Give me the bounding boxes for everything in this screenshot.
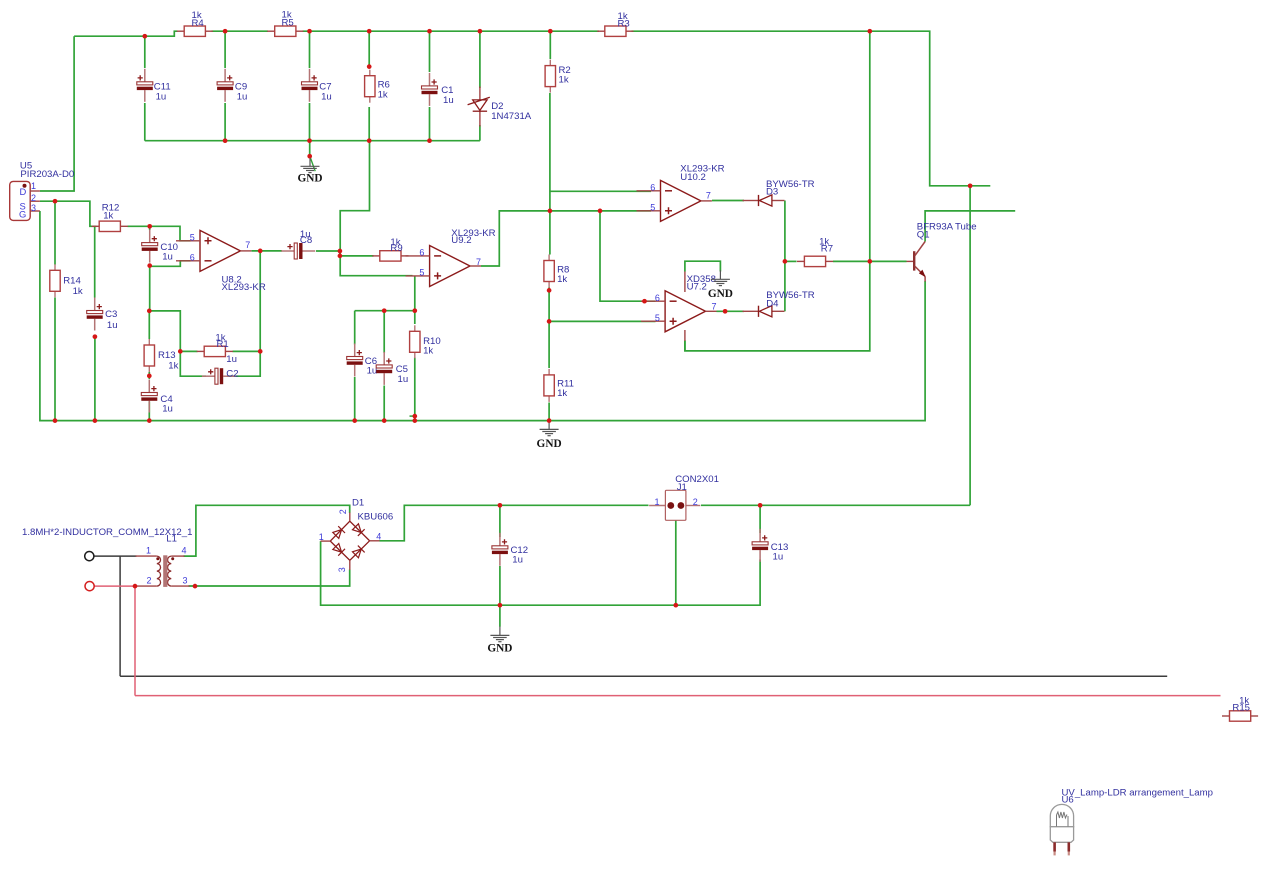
op-amp U9.2 xyxy=(430,246,470,287)
wire mains line red horiz xyxy=(94,585,136,587)
junction minus rail J1 xyxy=(673,603,678,608)
wire R12 to C10 junction xyxy=(128,226,191,241)
resistor R12 xyxy=(92,225,99,227)
svg-text:R9: R9 xyxy=(390,243,402,254)
wire C6 lower xyxy=(354,377,356,421)
svg-text:U10.2: U10.2 xyxy=(680,172,706,183)
svg-text:2: 2 xyxy=(693,497,698,507)
svg-text:C2: C2 xyxy=(226,368,238,379)
wire cap bank bottom rail xyxy=(145,140,480,142)
junction R13 C4 node xyxy=(147,374,152,379)
svg-text:5: 5 xyxy=(190,233,195,243)
wire C11 lower xyxy=(144,103,146,141)
svg-text:1u: 1u xyxy=(398,374,409,385)
svg-text:GND: GND xyxy=(537,438,562,450)
wire R1 left net xyxy=(149,311,206,376)
wire C6 C5 horizontal xyxy=(355,310,415,312)
wire U8 pin6 net xyxy=(150,261,191,267)
junction rail R14 xyxy=(53,418,58,423)
svg-text:D: D xyxy=(20,186,27,197)
bridge rectifier D1 KBU606 xyxy=(330,521,369,560)
capacitor C11 xyxy=(144,69,146,82)
junction rail R11 xyxy=(547,418,552,423)
svg-text:1k: 1k xyxy=(103,211,113,222)
transformer L1 xyxy=(136,555,157,557)
wire R11 lower xyxy=(548,403,550,421)
junction D3D4 R7 xyxy=(783,259,788,264)
junction rail C4 xyxy=(147,418,152,423)
capacitor C3 xyxy=(94,298,96,311)
svg-text:1k: 1k xyxy=(557,274,567,285)
wire R6 output net down-left xyxy=(340,141,412,276)
svg-text:1u: 1u xyxy=(226,354,237,365)
junction R9 node xyxy=(338,254,343,259)
wire R7 left link xyxy=(785,260,797,262)
wire D3 to D4 vertical xyxy=(784,201,786,312)
wire left drop to U5 pin1 xyxy=(40,36,74,191)
capacitor C13 xyxy=(759,529,761,542)
wire C12 branch xyxy=(499,505,501,537)
junction gnd top pin xyxy=(307,154,312,159)
wire C10-R13 vertical xyxy=(149,266,151,311)
wire top rail R5-R3 xyxy=(303,30,600,32)
resistor R7 xyxy=(797,260,805,262)
lamp U6 UV lamp xyxy=(1050,804,1073,826)
junction top rail C11 xyxy=(142,34,147,39)
diode D2 zener xyxy=(479,87,481,100)
wire C9 lower xyxy=(224,103,226,141)
wire C7 branch xyxy=(309,31,311,68)
junction top rail D2 xyxy=(478,29,483,34)
wire R2 to junction xyxy=(549,93,551,255)
junction U10 pin5 b xyxy=(598,209,603,214)
svg-text:XL293-KR: XL293-KR xyxy=(222,282,266,293)
resistor R10 xyxy=(414,325,416,331)
junction U7 out dot xyxy=(723,309,728,314)
wire R13-C4 junction link xyxy=(148,372,150,379)
wire L1 pin4 to bridge pin2 xyxy=(184,505,350,556)
svg-text:U7.2: U7.2 xyxy=(687,281,707,292)
terminal input bottom (red) xyxy=(85,582,94,591)
svg-text:1u: 1u xyxy=(321,92,332,103)
svg-text:1u: 1u xyxy=(512,554,523,565)
svg-text:1u: 1u xyxy=(162,404,173,415)
wire C8 junction vertical xyxy=(339,251,341,256)
junction R6 pin top xyxy=(367,64,372,69)
op-amp U7.2 xyxy=(665,291,705,332)
svg-text:PIR203A-D0: PIR203A-D0 xyxy=(20,169,74,180)
junction bank rail C7 xyxy=(307,138,312,143)
svg-text:R13: R13 xyxy=(158,350,176,361)
diode D4 xyxy=(743,310,759,312)
svg-text:5: 5 xyxy=(655,313,660,323)
svg-text:1N4731A: 1N4731A xyxy=(491,111,532,122)
wire mains line black horiz xyxy=(94,555,137,557)
junction R8 R11 mid xyxy=(547,319,552,324)
wire C8 right to junction xyxy=(316,250,340,252)
capacitor C12 xyxy=(499,533,501,546)
svg-text:1u: 1u xyxy=(107,320,118,331)
wire C3 lower xyxy=(94,337,96,421)
wire stub left of R10 bottom xyxy=(410,415,415,417)
capacitor C2 xyxy=(202,375,215,377)
wire C4 lower xyxy=(148,402,150,421)
svg-text:1k: 1k xyxy=(73,286,83,297)
svg-text:D4: D4 xyxy=(766,299,779,310)
wire V+ vertical x870 xyxy=(685,31,870,351)
junction U8 out xyxy=(258,249,263,254)
junction R10 pin dot xyxy=(412,414,417,419)
diode D3 xyxy=(743,200,759,202)
wire bridge pin1 down xyxy=(321,541,760,605)
wire R9 line xyxy=(340,255,374,257)
wire mains line red long xyxy=(135,695,1221,697)
junction R8 bottom xyxy=(547,288,552,293)
svg-text:2: 2 xyxy=(31,193,36,203)
wire U7 out to D4 xyxy=(717,310,745,312)
junction C8 node xyxy=(338,249,343,254)
wire pin5 stub down xyxy=(414,276,416,311)
wire R6 branch xyxy=(368,31,370,66)
svg-text:7: 7 xyxy=(245,240,250,250)
capacitor C10 xyxy=(149,230,151,243)
wire mains line black long xyxy=(120,675,1167,677)
wire D2 branch xyxy=(479,31,481,88)
wire mid junction to U7 pin5 xyxy=(549,320,655,322)
svg-text:1k: 1k xyxy=(378,89,388,100)
wire top rail R4-R5 xyxy=(212,30,269,32)
resistor R5 xyxy=(267,30,275,32)
junction R1 right xyxy=(258,349,263,354)
capacitor C4 xyxy=(148,380,150,393)
wire R6 lower xyxy=(368,107,370,141)
svg-text:Q1: Q1 xyxy=(917,229,930,240)
wire U9 out to U10 pin5 xyxy=(481,211,651,266)
op-amp U8.2 xyxy=(200,230,240,271)
wire R14 lower xyxy=(54,298,56,421)
wire R13 branch upper xyxy=(148,311,150,339)
svg-text:R15: R15 xyxy=(1232,703,1250,714)
svg-text:3: 3 xyxy=(31,203,36,213)
wire C10 lower stub xyxy=(149,264,151,266)
svg-text:D1: D1 xyxy=(352,497,364,508)
resistor R14 xyxy=(54,264,56,270)
junction C5 top xyxy=(382,308,387,313)
svg-text:1: 1 xyxy=(31,181,36,191)
svg-text:R4: R4 xyxy=(192,18,205,29)
svg-text:U6: U6 xyxy=(1062,795,1074,806)
wire U10 out to D3 xyxy=(712,200,744,202)
wire right long vertical to J1 net xyxy=(969,186,971,506)
capacitor C6 xyxy=(354,344,356,357)
svg-text:G: G xyxy=(19,208,26,219)
resistor R9 xyxy=(372,255,380,257)
svg-text:1k: 1k xyxy=(559,75,569,86)
svg-text:GND: GND xyxy=(487,643,512,655)
wire C9 branch xyxy=(224,31,226,68)
capacitor C5 xyxy=(383,352,385,365)
wire mains line red down xyxy=(134,586,136,696)
wire C1 branch xyxy=(429,31,431,72)
junction C10 top xyxy=(147,224,152,229)
svg-text:R3: R3 xyxy=(618,18,630,29)
transistor Q1 BFR93A xyxy=(907,260,914,262)
junction rail C3 xyxy=(93,418,98,423)
wire U8 out to C8 xyxy=(252,250,283,252)
svg-text:U9.2: U9.2 xyxy=(451,235,471,246)
junction plus rail C13 xyxy=(758,503,763,508)
svg-text:R1: R1 xyxy=(217,339,229,350)
wire R2 chain upper xyxy=(549,31,551,59)
op-amp U10.2 xyxy=(661,180,701,221)
wire U7 v- pin stub xyxy=(684,330,686,341)
wire R10 upper stub xyxy=(414,311,416,324)
svg-text:6: 6 xyxy=(190,253,195,263)
wire gnd diagonal xyxy=(310,156,315,171)
svg-text:R5: R5 xyxy=(282,18,294,29)
junction U7 pin6 dot xyxy=(642,299,647,304)
wire bottom long rail xyxy=(40,211,925,421)
ground GND top xyxy=(301,157,320,172)
svg-text:2: 2 xyxy=(147,576,152,586)
resistor R15 xyxy=(1222,715,1230,717)
svg-text:7: 7 xyxy=(476,257,481,267)
junction minus rail C12 xyxy=(498,603,503,608)
svg-text:5: 5 xyxy=(650,203,655,213)
junction C3 bottom xyxy=(93,334,98,339)
ground GND c12 xyxy=(490,626,509,641)
svg-text:3: 3 xyxy=(183,576,188,586)
resistor R3 xyxy=(597,30,605,32)
capacitor C7 xyxy=(309,69,311,82)
wire D2 lower xyxy=(479,125,481,141)
svg-text:6: 6 xyxy=(655,293,660,303)
svg-text:C8: C8 xyxy=(300,235,312,246)
svg-text:4: 4 xyxy=(182,546,187,556)
junction bank rail R6 xyxy=(367,138,372,143)
svg-text:1: 1 xyxy=(655,497,660,507)
junction R1 left xyxy=(178,349,183,354)
wire U7 v+ pin stub xyxy=(684,272,686,293)
capacitor C9 xyxy=(224,69,226,82)
resistor R1 xyxy=(197,350,205,352)
resistor R6 xyxy=(369,70,371,76)
wire R14 branch upper xyxy=(54,201,56,264)
wire C13 branch xyxy=(759,505,761,533)
svg-text:1: 1 xyxy=(146,546,151,556)
svg-text:7: 7 xyxy=(712,302,717,312)
wire U7 vplus loop xyxy=(685,261,721,271)
connector J1 CON2X01 xyxy=(649,505,665,507)
wire R1 right to U8 out xyxy=(233,251,261,352)
wire gnd stub under C7 xyxy=(309,141,311,157)
wire R10 lower xyxy=(414,358,416,421)
wire L1 pin3 to bridge pin3 xyxy=(189,570,350,587)
junction bank rail C9 xyxy=(223,138,228,143)
svg-text:1u: 1u xyxy=(773,551,784,562)
junction top rail x870 xyxy=(867,29,872,34)
junction R10 top xyxy=(412,308,417,313)
resistor R13 xyxy=(148,339,150,345)
capacitor C8 xyxy=(281,250,294,252)
svg-text:C3: C3 xyxy=(105,309,117,320)
svg-text:KBU606: KBU606 xyxy=(358,512,394,523)
wire mains line black down xyxy=(119,556,121,676)
junction top rail C9 xyxy=(223,29,228,34)
svg-text:7: 7 xyxy=(706,191,711,201)
wire C10 upper stub xyxy=(149,226,151,230)
junction U5 pin2 R14 xyxy=(53,199,58,204)
svg-text:6: 6 xyxy=(419,248,424,258)
ground GND mid xyxy=(540,420,559,435)
junction plus rail C12 xyxy=(498,503,503,508)
svg-text:1k: 1k xyxy=(423,346,433,357)
junction L1 pin3 node xyxy=(193,584,198,589)
wire C2 right link xyxy=(227,351,260,376)
wire C5 branch xyxy=(383,311,385,353)
capacitor C1 xyxy=(429,73,431,86)
wire Q1 collector net xyxy=(925,211,1015,242)
junction R13 top node xyxy=(147,309,152,314)
junction top rail R6 xyxy=(367,29,372,34)
svg-text:1u: 1u xyxy=(162,252,173,263)
resistor R11 xyxy=(548,369,550,375)
wire top rail left segment xyxy=(74,31,177,36)
junction C10 bottom xyxy=(147,263,152,268)
wire C3 branch upper xyxy=(94,226,96,297)
svg-text:1k: 1k xyxy=(168,360,178,371)
svg-text:2: 2 xyxy=(338,509,348,514)
svg-text:4: 4 xyxy=(376,532,381,542)
junction U10 pin5 a xyxy=(548,209,553,214)
junction right rail xyxy=(968,183,973,188)
wire C5 lower xyxy=(383,386,385,421)
svg-text:6: 6 xyxy=(650,183,655,193)
wire plus rail right of J1 xyxy=(701,504,970,506)
wire U7 vminus link xyxy=(684,341,686,351)
svg-text:UV_Lamp-LDR arrangement_Lamp: UV_Lamp-LDR arrangement_Lamp xyxy=(1062,787,1213,798)
svg-text:R7: R7 xyxy=(821,243,833,254)
resistor R8 xyxy=(548,255,550,261)
wire C12 lower xyxy=(499,566,501,627)
wire C11 branch xyxy=(144,36,146,68)
junction bank rail C1 xyxy=(427,138,432,143)
svg-text:1u: 1u xyxy=(237,92,248,103)
svg-text:1u: 1u xyxy=(156,92,167,103)
wire top rail R3-right corner xyxy=(632,31,991,186)
svg-text:5: 5 xyxy=(419,268,424,278)
wire U10 pin6 branch xyxy=(550,190,651,192)
wire U5 pin2 net xyxy=(40,201,97,226)
wire J1 bottom stub xyxy=(675,520,677,605)
wire C7 lower xyxy=(309,103,311,141)
svg-text:GND: GND xyxy=(297,173,322,185)
wire R7 right to Q1 base xyxy=(833,260,907,262)
wire R8 lower to mid junction xyxy=(548,288,550,369)
svg-text:1u: 1u xyxy=(443,95,454,106)
junction rail C5 xyxy=(382,418,387,423)
wire bridge pin4 to plus rail xyxy=(380,505,649,541)
wire R1 left lead link xyxy=(180,350,197,352)
svg-text:GND: GND xyxy=(708,288,733,300)
svg-text:3: 3 xyxy=(337,567,347,572)
junction top rail R2 xyxy=(548,29,553,34)
wire C6 branch xyxy=(354,311,356,345)
svg-text:1k: 1k xyxy=(557,388,567,399)
wire C1 lower xyxy=(429,107,431,141)
resistor R2 xyxy=(549,60,551,66)
junction red wire tap xyxy=(133,584,138,589)
terminal input top (black) xyxy=(85,552,94,561)
wire U7 pin6 branch xyxy=(600,211,656,301)
svg-text:1: 1 xyxy=(319,532,324,542)
junction rail R10 xyxy=(412,418,417,423)
junction rail C6 xyxy=(352,418,357,423)
junction top rail C1 xyxy=(427,29,432,34)
connector U5 PIR203A-D0 xyxy=(10,181,31,220)
junction top rail C7 xyxy=(307,29,312,34)
svg-text:J1: J1 xyxy=(677,482,687,493)
junction R7 x870 xyxy=(867,259,872,264)
ground GND u7 xyxy=(711,270,730,285)
svg-text:D3: D3 xyxy=(766,186,778,197)
resistor R4 xyxy=(177,30,184,32)
svg-text:L1: L1 xyxy=(166,533,177,544)
